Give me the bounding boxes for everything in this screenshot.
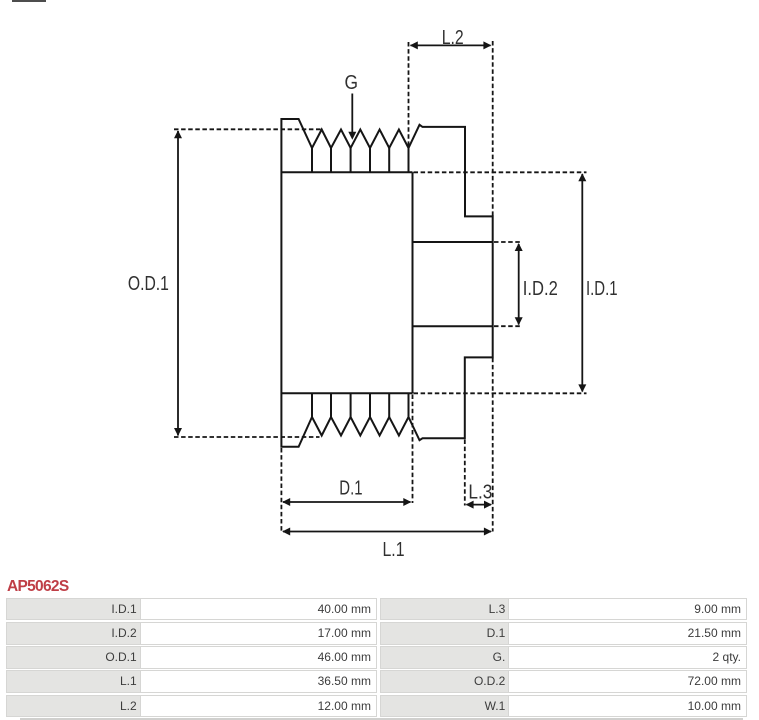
svg-text:L.3: L.3	[468, 481, 492, 503]
svg-text:I.D.1: I.D.1	[586, 278, 618, 300]
svg-text:O.D.1: O.D.1	[128, 273, 169, 295]
svg-text:G: G	[345, 72, 359, 94]
svg-text:I.D.2: I.D.2	[523, 278, 558, 300]
svg-text:L.2: L.2	[442, 27, 464, 49]
svg-text:L.1: L.1	[383, 539, 405, 561]
svg-text:D.1: D.1	[339, 478, 362, 500]
